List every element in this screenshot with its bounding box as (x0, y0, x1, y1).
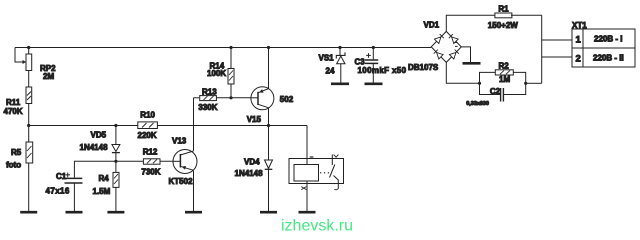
potentiometer RP2 (23, 48, 32, 88)
wire XT1 pin2 (542, 56, 572, 58)
relay contact fixed lead (331, 155, 333, 166)
wire line3 (74, 160, 180, 162)
diode VD5 (112, 126, 120, 162)
ground bridge right (463, 62, 481, 65)
svg-text:R5: R5 (11, 148, 22, 157)
ground VS1 (331, 83, 349, 86)
wire XT1 pin1 (542, 39, 572, 41)
node R14 base junction (229, 96, 232, 99)
svg-text:24: 24 (326, 67, 335, 76)
ground R5 (20, 211, 37, 214)
svg-text:izhevsk.ru: izhevsk.ru (281, 217, 353, 233)
node VS1 rail junction (338, 46, 341, 49)
svg-text:150+2W: 150+2W (488, 21, 518, 30)
bridge diode bottom-right (449, 53, 456, 60)
svg-text:VD1: VD1 (424, 21, 440, 30)
resistor R13 (194, 96, 259, 101)
diode VD4 (265, 126, 273, 212)
svg-text:502: 502 (280, 95, 294, 104)
relay pin mark coil bottom (301, 187, 306, 190)
node line2 left junction (27, 124, 30, 127)
svg-text:R12: R12 (143, 147, 158, 156)
node R14 top junction (229, 46, 232, 49)
svg-text:XT1: XT1 (572, 21, 587, 30)
ground VD4 (260, 211, 277, 214)
label C3 plus (366, 53, 371, 58)
svg-text:C2: C2 (490, 87, 501, 96)
wire bridge top to R1 (446, 15, 495, 31)
wire line2 (29, 125, 269, 127)
svg-text:0,33x630: 0,33x630 (466, 101, 489, 107)
ground V13 bar (185, 211, 202, 214)
svg-text:100mkF x50: 100mkF x50 (358, 66, 407, 75)
resistor R12 (143, 159, 160, 164)
svg-text:220B - I: 220B - I (594, 35, 622, 44)
svg-text:470K: 470K (4, 107, 23, 116)
svg-text:V13: V13 (172, 137, 187, 146)
label C1 plus (65, 173, 70, 178)
svg-text:730K: 730K (141, 168, 160, 177)
svg-text:VD5: VD5 (91, 131, 107, 140)
svg-text:R13: R13 (202, 88, 217, 97)
bridge polarity marks (455, 43, 458, 47)
svg-text:R4: R4 (99, 174, 110, 183)
wire relay feed (269, 126, 308, 165)
node V15 collector top (267, 46, 270, 49)
svg-text:100K: 100K (207, 69, 226, 78)
bridge diode top-left (434, 37, 441, 44)
wire bridge bottom (446, 62, 479, 83)
relay K1 box (289, 159, 344, 184)
svg-text:220K: 220K (138, 131, 157, 140)
resistor R10 (138, 122, 158, 129)
transistor V15 (251, 48, 274, 126)
bridge diode top-right (452, 37, 459, 44)
svg-text:V15: V15 (247, 115, 262, 124)
transistor V13 (173, 98, 198, 211)
resistor R1 (495, 13, 542, 18)
svg-text:47x16: 47x16 (46, 187, 70, 196)
svg-text:1N4148: 1N4148 (80, 143, 109, 152)
svg-text:foto: foto (6, 161, 21, 170)
ground R4 (107, 211, 124, 214)
bridge diode bottom-left (437, 53, 444, 60)
relay dotted link (320, 172, 330, 174)
svg-text:R2: R2 (499, 62, 510, 71)
capacitor C3 (365, 48, 378, 83)
node line3 junction (114, 160, 117, 163)
ground C1 (66, 211, 83, 214)
wire top rail net +24V (15, 47, 431, 49)
resistor R14 (228, 48, 234, 98)
svg-text:1.5M: 1.5M (93, 187, 111, 196)
resistor R4 (113, 161, 119, 211)
svg-text:R1: R1 (498, 4, 509, 13)
node R2C2 right (524, 82, 527, 85)
wire XT1 feed vertical (541, 15, 543, 83)
capacitor C2 (480, 83, 526, 101)
svg-text:R11: R11 (6, 98, 21, 107)
svg-text:220B - II: 220B - II (593, 54, 624, 63)
wire relay coil to ground (306, 181, 308, 211)
terminal block XT1 (572, 29, 635, 67)
svg-text:1: 1 (576, 35, 582, 46)
resistor R11 (26, 87, 32, 126)
relay pin mark contact bottom (334, 189, 338, 190)
svg-text:2: 2 (576, 54, 581, 65)
svg-text:C3: C3 (355, 57, 366, 66)
svg-text:VS1: VS1 (319, 54, 335, 63)
relay contact moving lead (334, 176, 339, 189)
wire bridge right to ground (461, 47, 470, 63)
relay K1 coil (294, 165, 319, 182)
node C3 rail junction (372, 46, 375, 49)
capacitor C1 (63, 161, 82, 211)
svg-text:2M: 2M (43, 72, 54, 81)
node R2C2 left (478, 82, 481, 85)
node RP2 top junction (27, 46, 30, 49)
svg-text:1M: 1M (499, 75, 510, 84)
svg-text:1N4148: 1N4148 (235, 169, 264, 178)
svg-text:KT502: KT502 (169, 177, 194, 186)
resistor R2 (480, 70, 526, 84)
relay contact blade (330, 165, 335, 178)
svg-text:R10: R10 (140, 111, 155, 120)
node VD5 top junction (114, 124, 117, 127)
svg-text:VD4: VD4 (244, 157, 260, 166)
wire to R2C2 (526, 82, 541, 84)
svg-text:330K: 330K (198, 103, 217, 112)
ground C3 (365, 83, 383, 86)
bridge rectifier VD1 (431, 31, 461, 62)
relay pin mark coil top (310, 156, 314, 158)
zener VS1 (336, 48, 345, 83)
svg-text:DB107S: DB107S (408, 63, 439, 72)
relay pin mark contact top (334, 155, 339, 158)
node V15 emitter line2 (267, 124, 270, 127)
photoresistor R5 (26, 126, 33, 212)
svg-text:C1: C1 (56, 172, 67, 181)
ground relay coil (299, 211, 316, 214)
wire RP2 wiper bracket (15, 48, 24, 63)
